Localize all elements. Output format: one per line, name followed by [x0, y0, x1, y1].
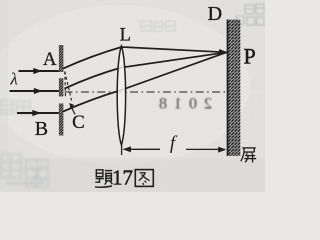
svg-text:C: C — [72, 112, 85, 133]
svg-text:L: L — [120, 25, 131, 45]
svg-text:A: A — [43, 49, 57, 70]
svg-text:17: 17 — [112, 166, 133, 190]
svg-text:2018: 2018 — [152, 96, 212, 113]
svg-text:P: P — [243, 43, 255, 68]
svg-text:B: B — [35, 118, 48, 140]
svg-text:D: D — [208, 3, 222, 25]
svg-text:λ: λ — [9, 70, 17, 89]
